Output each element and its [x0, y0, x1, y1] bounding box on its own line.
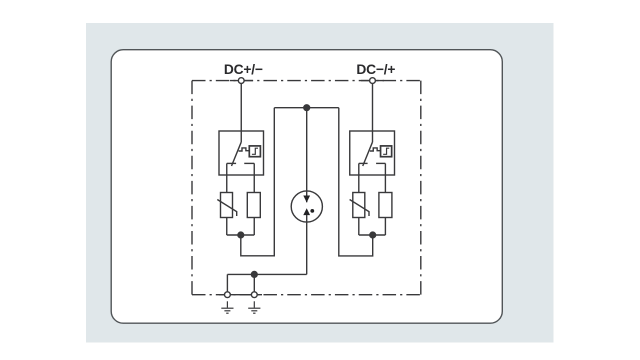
wire: left jog to center loop — [241, 108, 274, 256]
F1 lower contact bar left — [227, 162, 236, 164]
junction: left branch bottom — [238, 232, 244, 238]
white rounded card — [111, 50, 502, 324]
svg-text:DC−/+: DC−/+ — [356, 62, 395, 77]
wire: earth bus drop left — [226, 274, 228, 291]
wire: R1 bottom lead — [253, 218, 255, 236]
wire: earth bus horizontal — [227, 273, 306, 275]
junction: right branch bottom — [370, 232, 376, 238]
thermal disconnector box F1 — [219, 131, 264, 175]
device enclosure boundary right (dash-dot) — [420, 81, 422, 295]
F2 lower contact bar right — [376, 162, 385, 164]
junction: earth bus — [251, 272, 257, 278]
gray backdrop — [86, 23, 554, 343]
F1 actuator link (square bump) — [239, 148, 250, 151]
svg-text:DC+/−: DC+/− — [224, 62, 263, 77]
GDT upper electrode arrow — [303, 196, 310, 203]
F1 switch blade — [232, 142, 242, 166]
ground symbol left — [221, 301, 233, 313]
terminal X4 (earth right) — [251, 292, 257, 298]
varistor RV2 body — [353, 193, 365, 218]
wire: R2 bottom lead — [384, 218, 386, 236]
wire: top center bus — [274, 107, 339, 109]
varistor RV1 body — [221, 193, 233, 218]
wire: earth bus drop right — [253, 274, 255, 291]
node DC-/+ label — [356, 62, 395, 77]
wire: F2 right leg to monitoring element R2 — [384, 163, 386, 192]
F2 indicator step symbol — [383, 148, 389, 154]
ground symbol right — [248, 301, 260, 313]
F2 lower contact bar left — [359, 162, 368, 164]
F2 status indicator box — [381, 146, 392, 157]
wire: RV1 bottom lead — [226, 218, 228, 236]
wire: right branch bottom bar — [359, 234, 386, 236]
device enclosure boundary bottom (dash-dot) — [192, 294, 421, 296]
GDT gas-filled indicator dot — [310, 209, 314, 213]
junction: top center — [304, 105, 310, 111]
terminal X1 (DC+/-) — [238, 78, 244, 84]
device enclosure boundary left (dash-dot) — [191, 81, 193, 295]
wire: F1 left leg to varistor RV1 — [226, 163, 228, 192]
monitoring element R2 — [379, 193, 392, 218]
varistor RV2 symbol stroke — [350, 200, 369, 217]
F1 lower contact bar right — [244, 162, 254, 164]
F1 indicator step symbol — [252, 148, 258, 154]
wire: right jog to center loop — [339, 108, 373, 256]
wire: F1 right leg to monitoring element R1 — [253, 163, 255, 192]
wire: top border solid segment under left terminal — [230, 80, 253, 82]
wire: left terminal to left disconnector — [240, 84, 242, 143]
varistor RV1 symbol stroke — [217, 200, 236, 217]
wire: right terminal to right disconnector — [372, 84, 374, 143]
wire: bottom border solid segment under earth terminals — [219, 294, 262, 296]
terminal X2 (DC-/+) — [370, 78, 376, 84]
terminal X3 (earth left) — [225, 292, 231, 298]
wire: spark gap to earth bus — [306, 215, 308, 275]
wire: center bus down to spark gap — [306, 108, 308, 203]
F2 actuator link (square bump) — [370, 148, 381, 151]
monitoring element R1 — [247, 193, 260, 218]
thermal disconnector box F2 — [350, 131, 395, 175]
spark gap / GDT circle — [291, 191, 322, 222]
node DC+/- label — [224, 62, 263, 77]
device enclosure boundary top (dash-dot) — [192, 80, 421, 82]
F2 switch blade — [363, 142, 373, 166]
wire: left branch bottom bar — [227, 234, 255, 236]
wire: F2 left leg to varistor RV2 — [358, 163, 360, 192]
wire: top border solid segment under right terminal — [361, 80, 384, 82]
F1 status indicator box — [249, 146, 260, 157]
GDT lower electrode arrow — [303, 208, 310, 215]
wire: RV2 bottom lead — [358, 218, 360, 236]
